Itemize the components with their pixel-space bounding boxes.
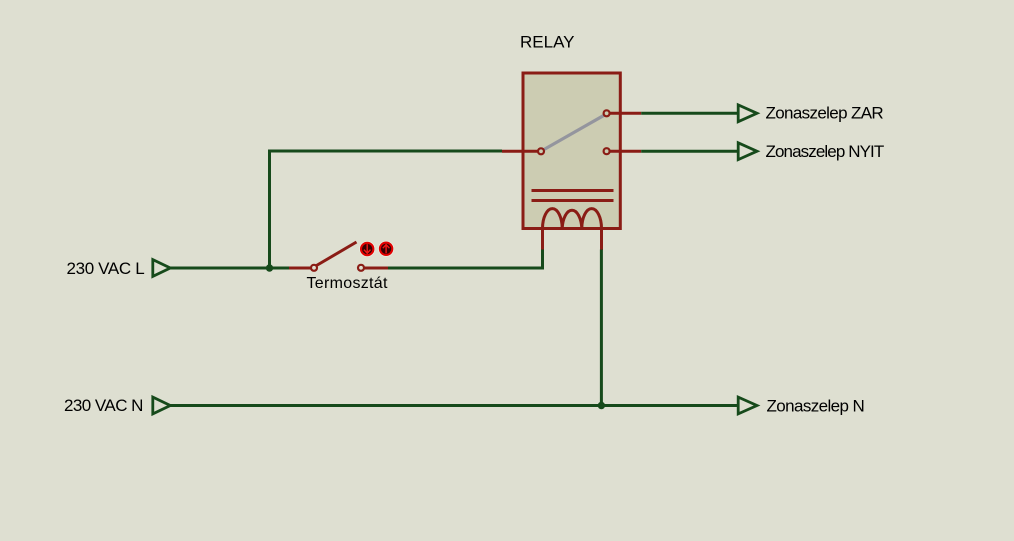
relay coil bar 2 bbox=[532, 199, 614, 202]
svg-text:RELAY: RELAY bbox=[520, 33, 575, 52]
wire coil left leg green bbox=[541, 250, 544, 270]
svg-text:Zonaszelep N: Zonaszelep N bbox=[767, 397, 865, 416]
relay coil arcs bbox=[543, 209, 602, 229]
wire relay NO to ZAR terminal bbox=[641, 112, 738, 115]
relay NO pin circle bbox=[604, 110, 610, 116]
thermostat pin circle left bbox=[311, 265, 317, 271]
svg-text:230 VAC N: 230 VAC N bbox=[64, 396, 143, 415]
terminal Zonaszelep N bbox=[738, 397, 757, 414]
relay coil bar 1 bbox=[532, 189, 614, 192]
relay NC pin circle bbox=[604, 148, 610, 154]
terminal 230 VAC L bbox=[153, 260, 171, 277]
svg-text:Zonaszelep NYIT: Zonaszelep NYIT bbox=[766, 142, 884, 161]
thermostat toggle button up bbox=[378, 241, 394, 257]
relay U1 body bbox=[523, 73, 620, 229]
relay switch blade (grey) bbox=[544, 115, 604, 149]
wire thermostat to relay coil left leg bbox=[388, 267, 544, 270]
junction B bbox=[598, 402, 605, 409]
wire relay NC to NYIT terminal bbox=[641, 150, 738, 153]
terminal 230 VAC N bbox=[153, 397, 171, 414]
wire coil right leg down to N line bbox=[600, 250, 603, 406]
svg-text:Termosztát: Termosztát bbox=[307, 275, 388, 292]
relay common pin stub bbox=[502, 150, 541, 153]
terminal Zonaszelep ZAR bbox=[738, 105, 757, 122]
thermostat pin stub left bbox=[289, 267, 311, 270]
thermostat pin circle right bbox=[358, 265, 364, 271]
relay coil pin right (red stub) bbox=[600, 229, 603, 251]
wire L terminal to thermostat bbox=[170, 267, 289, 270]
relay coil pin left (red stub) bbox=[541, 229, 544, 251]
thermostat pin stub right bbox=[364, 267, 388, 270]
junction A bbox=[266, 264, 273, 271]
thermostat toggle button down bbox=[359, 241, 375, 257]
svg-text:230 VAC L: 230 VAC L bbox=[67, 259, 145, 278]
thermostat blade bbox=[317, 242, 357, 266]
svg-text:Zonaszelep ZAR: Zonaszelep ZAR bbox=[766, 103, 884, 122]
relay NO pin stub bbox=[607, 112, 642, 115]
relay NC pin stub bbox=[607, 150, 642, 153]
wire junction riser to relay common bbox=[270, 151, 503, 268]
relay common pin circle bbox=[538, 148, 544, 154]
wire N line bbox=[170, 404, 738, 407]
terminal Zonaszelep NYIT bbox=[738, 143, 757, 160]
